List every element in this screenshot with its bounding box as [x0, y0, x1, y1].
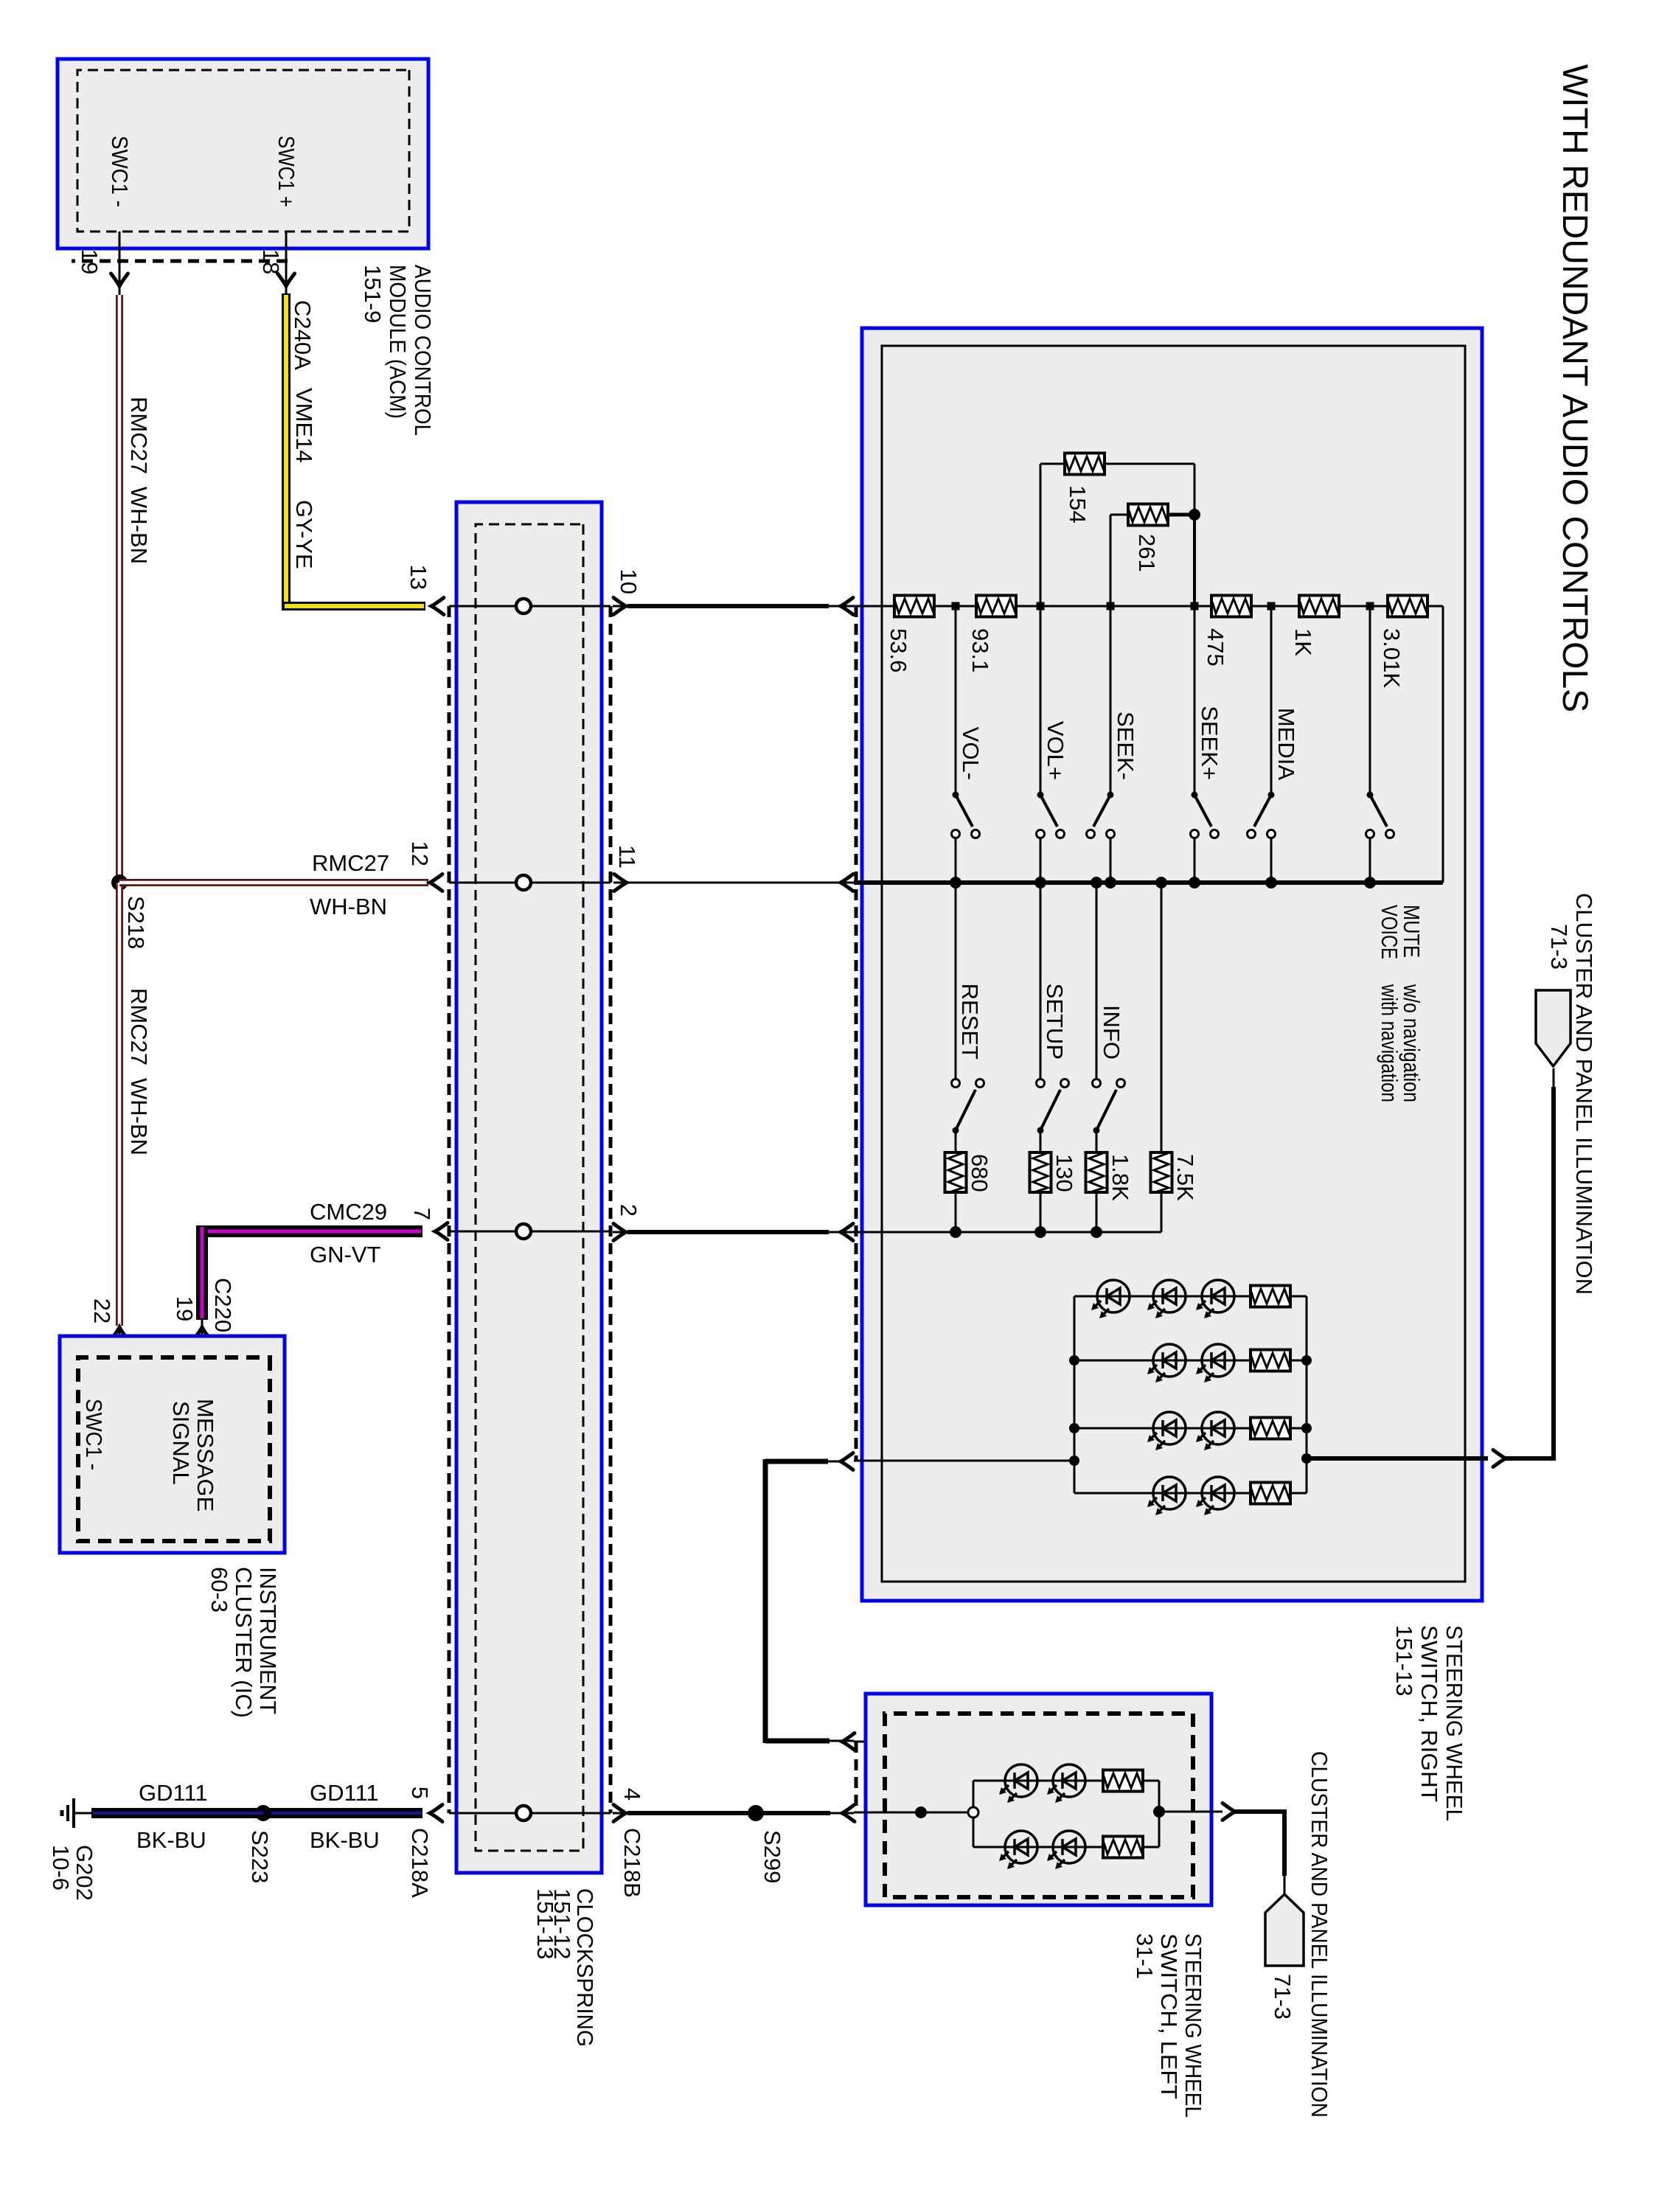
svg-text:7: 7 — [409, 1208, 435, 1220]
switch SEEK+ — [1192, 792, 1198, 799]
svg-text:C220: C220 — [210, 1278, 236, 1332]
arrow out (cluster illumination) — [1493, 1450, 1506, 1467]
wire CMC29 GN-VT vertical segment — [196, 1225, 422, 1237]
wire pin2 thick segment to steering wheel switch right — [613, 1231, 630, 1234]
left box split circle — [968, 1807, 978, 1818]
svg-text:S299: S299 — [759, 1830, 785, 1883]
resistor 261 — [1128, 504, 1168, 526]
LED D2 — [1147, 1280, 1186, 1318]
svg-text:SWITCH, RIGHT: SWITCH, RIGHT — [1416, 1625, 1442, 1802]
arrow out of right box (LED feed) — [841, 1453, 853, 1470]
node SEEK- chain — [1107, 602, 1115, 611]
node VOL- chain — [952, 602, 960, 611]
resistor R-LED4 — [1251, 1483, 1290, 1504]
clockspring box — [456, 502, 602, 1873]
resistor R-LED3 — [1251, 1418, 1290, 1439]
resistor 93.1 — [976, 596, 1016, 617]
wire to off-page connector 71-3 (bottom) — [1235, 1809, 1287, 1814]
wire 154 branch — [1040, 464, 1042, 606]
svg-text:19: 19 — [172, 1296, 198, 1321]
left box main wire from pin4 arrow — [854, 1812, 973, 1814]
svg-text:13: 13 — [406, 565, 431, 590]
svg-text:SETUP: SETUP — [1042, 984, 1068, 1060]
svg-text:VOL+: VOL+ — [1043, 721, 1068, 780]
svg-text:S218: S218 — [123, 896, 149, 949]
steering wheel switch right inner rectangle — [882, 346, 1465, 1582]
switch MUTE/VOICE — [1367, 792, 1374, 799]
arrow into steering wheel switch right (pin10) — [841, 598, 853, 615]
wire pin13 to pin10 through clockspring — [449, 605, 611, 608]
svg-text:CLUSTER (IC): CLUSTER (IC) — [231, 1567, 257, 1718]
svg-text:4: 4 — [619, 1788, 645, 1801]
svg-text:RMC27: RMC27 — [312, 850, 389, 876]
LED rail junction dots — [1069, 1355, 1079, 1366]
connector dashed line clockspring bottom — [448, 606, 451, 1813]
left box branch B wire — [973, 1846, 1159, 1848]
wire pin11 to steering wheel switch right — [613, 882, 854, 884]
wire RMC27 WH-BN branch S218 to clockspring pin 12 — [119, 879, 428, 886]
svg-text:C240A: C240A — [290, 300, 316, 370]
svg-text:SWC1 -: SWC1 - — [81, 1399, 107, 1470]
wire 261 branch — [1110, 515, 1112, 606]
svg-text:S223: S223 — [247, 1830, 273, 1883]
connector dashed line at steering wheel switch right — [855, 606, 858, 1461]
LED network top rail — [1306, 1296, 1308, 1493]
left box split rail — [973, 1781, 975, 1807]
LED D11 — [1047, 1764, 1085, 1803]
wire LED feed thick run to left box — [765, 1461, 841, 1463]
steering wheel switch left box — [866, 1694, 1211, 1905]
svg-text:WH-BN: WH-BN — [126, 487, 152, 564]
svg-text:CLUSTER AND PANEL ILLUMINATION: CLUSTER AND PANEL ILLUMINATION — [1307, 1751, 1332, 2118]
svg-text:INSTRUMENT: INSTRUMENT — [255, 1567, 281, 1714]
svg-text:31-1: 31-1 — [1132, 1933, 1158, 1979]
pin 22 arrow (IC) — [111, 1327, 128, 1340]
svg-text:71-3: 71-3 — [1546, 924, 1572, 970]
svg-text:with navigation: with navigation — [1377, 984, 1402, 1102]
resistor R-LED1 — [1251, 1286, 1290, 1307]
svg-text:SWITCH, LEFT: SWITCH, LEFT — [1156, 1933, 1182, 2099]
off-page connector 71-3 (bottom) — [1265, 1894, 1304, 1966]
LED column 4 wires — [1074, 1492, 1307, 1495]
svg-text:12: 12 — [407, 841, 433, 866]
connector dashed line at steering wheel switch left — [855, 1742, 858, 1813]
wire thin segment to IC pin 19 — [201, 1320, 204, 1395]
LED D3 — [1196, 1280, 1234, 1318]
arrow into steering wheel switch right (pin2) — [841, 1224, 853, 1241]
switch SETUP row with resistor 130 — [1040, 883, 1042, 1079]
svg-text:475: 475 — [1203, 628, 1228, 667]
switch VOL- — [953, 792, 959, 799]
svg-text:151-13: 151-13 — [532, 1888, 558, 1960]
svg-text:10-6: 10-6 — [48, 1845, 74, 1891]
wire CMC29 GN-VT horizontal segment — [196, 1225, 208, 1320]
clockspring ring wire 12 — [516, 875, 531, 890]
svg-text:CLUSTER AND PANEL ILLUMINATION: CLUSTER AND PANEL ILLUMINATION — [1571, 893, 1597, 1295]
svg-text:22: 22 — [89, 1298, 115, 1324]
LED column 2 wires — [1074, 1360, 1307, 1362]
svg-text:RESET: RESET — [957, 984, 983, 1060]
svg-text:261: 261 — [1134, 534, 1160, 572]
clockspring ring wire 5 — [516, 1806, 531, 1820]
LED D10 — [999, 1764, 1037, 1803]
svg-text:G202: G202 — [72, 1845, 97, 1901]
connector C220 dashed line — [120, 1348, 204, 1352]
svg-text:C218B: C218B — [619, 1828, 645, 1898]
LED D7 — [1196, 1412, 1234, 1450]
bus pin11 vertical thick wire — [854, 880, 1443, 885]
switch MEDIA — [1268, 792, 1275, 799]
left box output wire — [1159, 1811, 1222, 1813]
svg-text:3.01K: 3.01K — [1379, 628, 1405, 688]
svg-text:GN-VT: GN-VT — [310, 1242, 381, 1267]
svg-text:680: 680 — [967, 1154, 992, 1192]
clockspring ring wire 7 — [516, 1224, 531, 1239]
wire MUTE row — [1369, 606, 1371, 792]
svg-text:GY-YE: GY-YE — [291, 500, 317, 569]
resistor R-LED2 — [1251, 1350, 1290, 1371]
svg-text:BK-BU: BK-BU — [310, 1827, 380, 1853]
svg-text:SEEK-: SEEK- — [1113, 712, 1138, 780]
audio control module (ACM) box — [58, 59, 428, 248]
resistor 1K — [1299, 596, 1339, 617]
pin 13 arrow — [431, 598, 444, 615]
wire pin7 to pin2 through clockspring — [449, 1231, 611, 1233]
splice S299 — [748, 1805, 764, 1821]
svg-text:VME14: VME14 — [291, 388, 317, 463]
svg-text:1.8K: 1.8K — [1107, 1154, 1133, 1201]
steering wheel switch left inner dashed box — [885, 1714, 1193, 1897]
resistor 7.5K row — [1161, 883, 1163, 1152]
svg-text:CMC29: CMC29 — [310, 1199, 387, 1225]
svg-text:71-3: 71-3 — [1270, 1974, 1295, 2020]
wire SEEK+ row — [1194, 606, 1196, 792]
ACM inner dashed box — [77, 70, 409, 232]
svg-text:STEERING WHEEL: STEERING WHEEL — [1180, 1933, 1206, 2118]
LED D8 — [1147, 1477, 1186, 1515]
svg-text:53.6: 53.6 — [886, 628, 911, 672]
arrow into steering wheel switch left (illumination) — [842, 1733, 855, 1750]
pin 5 arrow — [430, 1805, 442, 1822]
svg-text:19: 19 — [77, 249, 102, 274]
wire into left box to junction — [854, 1741, 921, 1743]
wire resistor chain pin10 — [854, 605, 1443, 608]
wire MEDIA row — [1270, 606, 1273, 792]
svg-text:7.5K: 7.5K — [1172, 1154, 1198, 1201]
resistor R-LED5 — [1103, 1770, 1143, 1792]
wire pin4 to steering wheel switch left with S299 — [613, 1812, 630, 1815]
svg-text:MEDIA: MEDIA — [1273, 708, 1299, 781]
svg-text:93.1: 93.1 — [967, 628, 993, 672]
wire VOL- row — [955, 606, 957, 792]
wire RMC27 WH-BN segment S218 to instrument cluster — [116, 883, 123, 1326]
svg-text:151-9: 151-9 — [360, 265, 386, 323]
pin 7 arrow — [435, 1223, 448, 1240]
lower bus junction dots — [950, 1226, 961, 1238]
arrow into steering wheel switch right (pin11) — [841, 874, 853, 891]
ground G202 symbol — [74, 1812, 93, 1815]
left box collector rail — [1158, 1781, 1161, 1847]
svg-text:VOL-: VOL- — [958, 727, 984, 780]
wire pin5 to pin4 through clockspring — [449, 1812, 611, 1815]
switch VOL+ — [1037, 792, 1044, 799]
wire GD111 BK-BU S223 to ground — [91, 1808, 263, 1818]
off-page connector 71-3 (top) — [1536, 990, 1571, 1066]
wire LED feed down from bottom rail — [854, 1460, 1074, 1462]
node VOL+ chain — [1037, 602, 1045, 611]
wire pin12 to pin11 through clockspring — [449, 882, 611, 884]
wire chain top corner to bus — [1442, 606, 1444, 883]
wire RMC27 WH-BN segment ACM to S218 — [116, 295, 123, 883]
node SEEK+ chain — [1191, 602, 1199, 611]
svg-text:BK-BU: BK-BU — [136, 1827, 206, 1853]
LED D1 — [1091, 1280, 1130, 1318]
svg-text:GD111: GD111 — [139, 1780, 208, 1806]
resistor 475 — [1211, 596, 1251, 617]
LED D13 — [1047, 1831, 1085, 1869]
left box branch A wire — [973, 1780, 1159, 1782]
LED network bottom rail — [1074, 1296, 1076, 1493]
switch RESET row with resistor 680 — [955, 883, 957, 1079]
svg-text:130: 130 — [1051, 1154, 1077, 1192]
svg-text:151-13: 151-13 — [1391, 1625, 1417, 1697]
node MUTE chain — [1366, 602, 1374, 611]
connector dashed line clockspring top — [609, 606, 613, 1813]
wire 154/261 to SEEK+ node — [1193, 515, 1196, 606]
splice S223 — [255, 1805, 271, 1821]
svg-text:60-3: 60-3 — [206, 1567, 232, 1613]
wire LED output to cluster illumination — [1307, 1456, 1488, 1461]
svg-text:INFO: INFO — [1099, 1005, 1124, 1060]
left box output junction dot — [1153, 1806, 1165, 1818]
clockspring inner dashed box — [476, 524, 583, 1851]
svg-text:C218A: C218A — [407, 1828, 433, 1898]
connector C240A dashed line — [72, 260, 288, 263]
svg-text:CLOCKSPRING: CLOCKSPRING — [572, 1888, 598, 2047]
svg-text:11: 11 — [614, 845, 640, 869]
wire GD111 BK-BU clockspring to S223 — [263, 1808, 422, 1818]
svg-text:WITH REDUNDANT AUDIO CONTROLS: WITH REDUNDANT AUDIO CONTROLS — [1555, 64, 1594, 712]
svg-text:154: 154 — [1065, 485, 1091, 524]
svg-text:RMC27: RMC27 — [126, 397, 152, 474]
svg-text:STEERING WHEEL: STEERING WHEEL — [1441, 1625, 1467, 1821]
svg-text:WH-BN: WH-BN — [310, 894, 387, 919]
svg-text:SEEK+: SEEK+ — [1197, 706, 1222, 780]
arrow into steering wheel switch left (pin4 wire) — [842, 1805, 855, 1822]
svg-text:SWC1 +: SWC1 + — [274, 136, 299, 207]
wire pin10 thick segment to steering wheel switch right — [613, 605, 630, 608]
wire VOL+ row — [1040, 606, 1042, 792]
left box feed junction dot — [915, 1806, 927, 1818]
junction 154/261 — [1189, 509, 1200, 521]
svg-text:5: 5 — [407, 1787, 433, 1799]
splice S218 — [111, 874, 128, 891]
svg-text:AUDIO CONTROL: AUDIO CONTROL — [410, 265, 436, 436]
svg-text:18: 18 — [258, 249, 284, 274]
svg-text:MESSAGE: MESSAGE — [192, 1399, 218, 1512]
svg-text:MODULE (ACM): MODULE (ACM) — [385, 265, 411, 419]
switch SEEK- — [1107, 792, 1114, 799]
svg-text:SIGNAL: SIGNAL — [168, 1401, 194, 1485]
node MEDIA chain — [1267, 602, 1276, 611]
LED D9 — [1196, 1477, 1234, 1515]
pin 4 arrow — [613, 1805, 626, 1822]
resistor R-LED6 — [1103, 1837, 1143, 1858]
LED D5 — [1196, 1344, 1234, 1382]
svg-text:SWC1 -: SWC1 - — [107, 136, 133, 207]
LED D6 — [1147, 1412, 1186, 1450]
steering wheel switch right box — [862, 328, 1482, 1601]
IC inner dashed box — [78, 1357, 270, 1541]
bus pin2 vertical wire — [854, 1231, 1161, 1234]
pin 11 arrow — [614, 874, 627, 891]
arrow out of left box (illumination out) — [1222, 1804, 1235, 1820]
pin 2 arrow — [613, 1224, 626, 1241]
switch INFO row with resistor 1.8K — [1096, 883, 1098, 1079]
resistor 3.01K — [1388, 596, 1427, 617]
svg-text:10: 10 — [616, 569, 641, 594]
pin 12 arrow — [430, 874, 442, 891]
pin 10 arrow — [613, 598, 626, 615]
wire SEEK- row — [1110, 606, 1112, 792]
bus junction dots — [950, 877, 961, 888]
pin 19 arrow — [119, 232, 121, 295]
LED D12 — [999, 1831, 1037, 1869]
clockspring ring wire 13 — [516, 599, 531, 613]
instrument cluster (IC) box — [60, 1336, 285, 1553]
svg-text:2: 2 — [616, 1204, 641, 1217]
LED D4 — [1147, 1344, 1186, 1382]
svg-text:1K: 1K — [1290, 628, 1316, 656]
LED column 3 wires — [1074, 1427, 1307, 1430]
wire VME14 GY-YE horizontal segment — [282, 293, 291, 611]
svg-text:VOICE: VOICE — [1377, 905, 1402, 959]
LED column 1 wires — [1074, 1295, 1307, 1298]
svg-text:RMC27: RMC27 — [126, 988, 152, 1065]
svg-text:GD111: GD111 — [310, 1780, 379, 1806]
pin 19 arrow (IC) — [194, 1327, 211, 1340]
svg-text:WH-BN: WH-BN — [126, 1078, 152, 1155]
wire VME14 GY-YE vertical segment — [282, 602, 425, 611]
resistor 53.6 — [894, 596, 934, 617]
resistor 154 — [1065, 453, 1105, 475]
pin 18 arrow — [285, 232, 288, 295]
